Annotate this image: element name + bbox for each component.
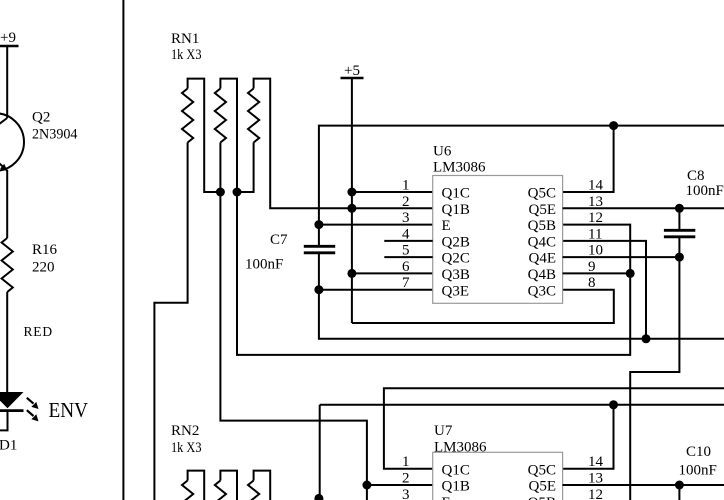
junction U6 pin 9 at pin 12 drop	[626, 269, 635, 278]
wire emitter rail C7 to right edge	[319, 290, 724, 339]
svg-text:Q5B: Q5B	[528, 218, 556, 234]
wire RN2-A top hook	[188, 471, 205, 500]
wire U6 pin 7	[319, 289, 433, 291]
wire +5 vertical rail	[351, 78, 353, 323]
wire D1 cathode to left edge	[0, 412, 8, 431]
svg-text:LM3086: LM3086	[433, 160, 486, 176]
svg-text:12: 12	[588, 487, 603, 500]
svg-text:RN2: RN2	[171, 423, 199, 439]
svg-text:6: 6	[402, 259, 410, 275]
wire RN1-C top hook to U6 pin 2	[254, 79, 433, 209]
power +9 rail bar	[0, 45, 19, 48]
wire RN1-A top hook	[188, 79, 221, 192]
wire U6 pin 6	[352, 272, 433, 274]
svg-text:14: 14	[588, 454, 604, 470]
wire U7 pin 1 loop to right edge	[384, 388, 724, 468]
wire U6 pin 14	[563, 126, 614, 192]
svg-text:Q1B: Q1B	[442, 479, 470, 495]
wire U7 pin 14 rail	[320, 404, 724, 406]
page divider border line	[122, 0, 124, 500]
svg-text:RED: RED	[24, 324, 53, 339]
wire U6 pin 3 E	[319, 224, 433, 226]
capacitor C8 plates	[664, 230, 695, 237]
transistor Q2 body circle	[0, 113, 24, 171]
svg-text:100nF: 100nF	[679, 463, 717, 479]
LED D1 cathode bar	[0, 409, 24, 412]
capacitor C8 bottom lead	[678, 237, 680, 257]
svg-text:1: 1	[402, 178, 410, 194]
transistor Q2 collector lead	[0, 118, 7, 129]
svg-text:2: 2	[402, 471, 410, 487]
junction RN1 node A	[216, 188, 225, 197]
wire Q2 emitter to R16	[6, 170, 8, 238]
transistor Q2 emitter arrow	[0, 164, 7, 171]
capacitor C7 bottom lead	[318, 253, 320, 290]
wire RN1 node A down-right to U7 pin 2	[220, 143, 367, 500]
svg-text:2: 2	[402, 194, 410, 210]
svg-text:Q5E: Q5E	[529, 479, 557, 495]
svg-text:U7: U7	[434, 423, 453, 439]
svg-text:C7: C7	[270, 232, 288, 248]
capacitor C8 top lead	[678, 208, 680, 230]
junction C7 top at U6 pin 3	[314, 220, 323, 229]
svg-text:3: 3	[402, 487, 410, 500]
svg-text:Q2: Q2	[32, 110, 50, 126]
svg-text:7: 7	[402, 275, 410, 291]
IC U7 box	[433, 452, 563, 500]
junction C8 top at U6 pin 13	[675, 204, 684, 213]
capacitor C7 top lead	[318, 225, 320, 247]
LED D1 triangle	[0, 392, 24, 408]
svg-text:220: 220	[32, 260, 55, 276]
svg-text:R16: R16	[32, 242, 58, 258]
wire R16 to D1 anode	[6, 292, 8, 392]
U6 pin 5 stub	[384, 256, 432, 258]
wire +9 to Q2 collector	[6, 46, 8, 118]
junction C8 bottom at U6 pin 10	[675, 253, 684, 262]
wire +5 rail to U6 pin 8	[352, 290, 614, 323]
svg-text:Q4B: Q4B	[528, 267, 556, 283]
capacitor C10 top lead	[678, 485, 680, 500]
svg-text:1k X3: 1k X3	[171, 47, 202, 63]
svg-text:14: 14	[588, 178, 604, 194]
svg-text:Q4C: Q4C	[528, 235, 556, 251]
svg-text:LM3086: LM3086	[434, 440, 487, 456]
svg-text:C8: C8	[687, 168, 705, 184]
svg-text:Q2B: Q2B	[442, 235, 470, 251]
svg-text:100nF: 100nF	[686, 183, 724, 199]
svg-text:Q5C: Q5C	[528, 186, 556, 202]
wire U7 pin 2	[367, 484, 433, 486]
transistor Q2 emitter lead	[0, 157, 8, 171]
junction top rail at U6 pin 14	[609, 121, 618, 130]
wire RN1-B top hook	[220, 79, 237, 192]
svg-text:100nF: 100nF	[245, 257, 283, 273]
wire U6 pin 11	[563, 241, 646, 339]
wire RN1 node B down to emitter rail	[237, 192, 630, 355]
svg-text:U6: U6	[433, 144, 452, 160]
junction C10 top at U7 pin 13	[675, 481, 684, 490]
svg-text:2N3904: 2N3904	[32, 127, 78, 143]
junction +5 at U6 pin 6	[347, 269, 356, 278]
junction U7 E node	[314, 494, 323, 500]
wire U6 pin 10 down staircase	[630, 257, 679, 500]
wire RN2-C top hook	[254, 471, 271, 500]
svg-text:Q5C: Q5C	[528, 462, 556, 478]
power +5 rail bar	[341, 77, 364, 80]
svg-text:Q1C: Q1C	[442, 186, 470, 202]
wire U7 pin 13 to right edge	[563, 484, 724, 486]
junction U7 pin 2 node	[362, 481, 371, 490]
svg-text:+9: +9	[0, 30, 16, 46]
LED D1 emission arrow 2	[27, 410, 39, 421]
wire U6 pin 10	[563, 256, 680, 258]
svg-text:Q3E: Q3E	[442, 283, 470, 299]
svg-text:Q3C: Q3C	[528, 283, 556, 299]
wire RN1-A bottom to lower stage	[154, 143, 187, 500]
junction C7 bottom at U6 pin 7	[314, 285, 323, 294]
svg-text:ENV: ENV	[49, 398, 89, 422]
svg-text:E: E	[442, 495, 451, 500]
wire U6 pin 1	[352, 191, 433, 193]
junction +5 at U6 pin 2	[347, 204, 356, 213]
resistor RN1-B	[215, 89, 226, 143]
svg-text:1: 1	[402, 454, 410, 470]
svg-text:RN1: RN1	[171, 31, 199, 47]
svg-text:12: 12	[588, 210, 603, 226]
wire RN1-C bottom to node	[237, 143, 254, 193]
svg-text:D1: D1	[0, 438, 17, 454]
wire U6 pin 9	[563, 272, 631, 274]
svg-text:Q2C: Q2C	[442, 251, 470, 267]
svg-text:3: 3	[402, 210, 410, 226]
IC U6 box	[433, 176, 563, 304]
svg-text:Q3B: Q3B	[442, 267, 470, 283]
svg-text:1k X3: 1k X3	[171, 440, 202, 456]
LED D1 emission arrow 1	[27, 398, 39, 409]
svg-text:8: 8	[588, 275, 596, 291]
capacitor C7 plates	[304, 246, 335, 253]
wire RN2-B top hook	[220, 471, 237, 500]
junction emitter rail at U6 pin 11	[642, 334, 651, 343]
svg-text:+5: +5	[344, 63, 360, 79]
wire U7 rail down to U7 pin 3 E	[319, 405, 321, 499]
svg-text:Q4E: Q4E	[529, 251, 557, 267]
U6 pin 4 stub	[384, 240, 432, 242]
svg-text:Q1B: Q1B	[442, 202, 470, 218]
junction U7 pin 14 node	[609, 400, 618, 409]
svg-text:Q5B: Q5B	[528, 495, 556, 500]
wire U6 pin 13 to right edge	[563, 207, 724, 209]
svg-text:Q1C: Q1C	[442, 462, 470, 478]
junction RN1 node B	[233, 188, 242, 197]
resistor RN2-C	[248, 481, 259, 500]
resistor RN1-A	[182, 89, 193, 143]
svg-text:C10: C10	[686, 444, 711, 460]
svg-text:E: E	[442, 218, 451, 234]
svg-text:Q5E: Q5E	[529, 202, 557, 218]
resistor R16	[2, 238, 13, 292]
resistor RN2-B	[215, 481, 226, 500]
junction +5 at U6 pin 1	[347, 188, 356, 197]
svg-text:11: 11	[588, 226, 602, 242]
resistor RN1-C	[248, 89, 259, 143]
wire top rail from C7 to right edge	[319, 126, 724, 225]
wire U7 pin 14	[563, 405, 614, 469]
resistor RN2-A	[182, 481, 193, 500]
